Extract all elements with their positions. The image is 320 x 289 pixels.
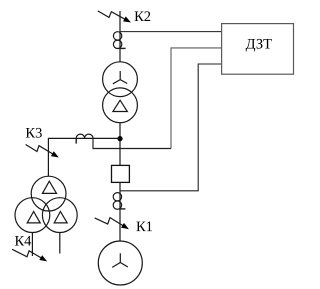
wire main vertical bus (T1 to relay square) bbox=[119, 123, 121, 166]
wire T2 right winding lead down bbox=[59, 233, 61, 254]
wire K3 branch vertical to T2 bbox=[47, 138, 49, 177]
label K4 bbox=[14, 234, 32, 250]
wire T2 left winding lead down bbox=[31, 233, 33, 257]
label DZT bbox=[246, 36, 273, 52]
generator G circle bbox=[98, 241, 142, 285]
generator G star symbol bbox=[112, 253, 128, 267]
fault arrow K4 bbox=[12, 249, 42, 258]
relay measuring element (square) bbox=[112, 165, 130, 182]
label K1 bbox=[136, 219, 153, 235]
fault arrow K1 bbox=[95, 218, 124, 227]
wire main vertical bus (top section) bbox=[119, 11, 121, 62]
current transformer TA3 (lower, loops) bbox=[113, 193, 121, 201]
svg-text:К4: К4 bbox=[14, 234, 32, 250]
svg-text:ДЗТ: ДЗТ bbox=[246, 36, 273, 52]
svg-text:К1: К1 bbox=[136, 219, 153, 235]
wire TA1 secondary to DZT input 1 bbox=[120, 31, 222, 33]
wire K3 branch horizontal bbox=[48, 137, 120, 139]
wire TA2 secondary drop and horizontal run bbox=[93, 139, 171, 149]
relay DZT box bbox=[222, 24, 294, 75]
transformer T1 winding 2 (delta) bbox=[103, 88, 138, 123]
fault arrow K2 bbox=[98, 11, 126, 20]
transformer T2 winding 2 (left, delta) bbox=[15, 198, 50, 233]
fault arrow K3 bbox=[26, 145, 54, 155]
label K2 bbox=[134, 9, 151, 25]
svg-text:К3: К3 bbox=[25, 126, 42, 142]
wire TA2 secondary riser to DZT input 2 bbox=[171, 48, 222, 149]
transformer T1 winding 1 (star) bbox=[103, 62, 138, 97]
transformer T2 winding 1 (top, delta) bbox=[31, 176, 66, 211]
label K3 bbox=[25, 126, 42, 142]
current transformer TA2 (on K3 branch, humps) bbox=[76, 134, 93, 138]
svg-text:К2: К2 bbox=[134, 9, 151, 25]
wire TA3 secondary to DZT input 3 bbox=[120, 64, 222, 191]
transformer T2 winding 3 (right, delta) bbox=[42, 198, 77, 233]
node junction dot bbox=[117, 136, 122, 141]
current transformer TA1 (top, loops) bbox=[113, 32, 121, 40]
wire main vertical bus (square to generator) bbox=[119, 182, 121, 241]
